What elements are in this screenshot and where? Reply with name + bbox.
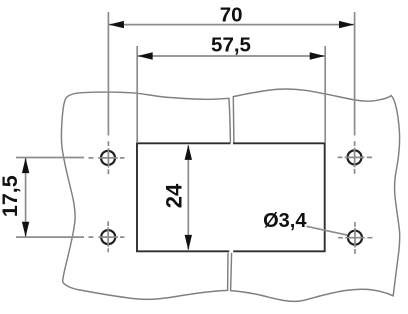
cutout rectangle	[137, 142, 325, 252]
dimension 24 line	[187, 145, 189, 250]
hole bottom-left centerlines	[89, 221, 125, 252]
leader line for hole diameter	[307, 226, 348, 235]
hole bottom-left circle	[101, 230, 115, 244]
dimension 17,5 extension bottom	[16, 236, 84, 238]
dimension 17,5 arrow top	[22, 158, 29, 173]
hole bottom-right centerlines	[338, 222, 372, 254]
svg-text:24: 24	[162, 183, 187, 208]
dimension 24 arrow bottom	[185, 235, 192, 250]
dimension 57,5 arrow right	[310, 52, 325, 59]
dimension 24 arrow top	[185, 145, 192, 160]
dimension 70 arrow right	[339, 21, 354, 28]
dimension 57,5 line	[137, 55, 325, 57]
dimension 70 extension right / hole centerline	[354, 12, 356, 136]
svg-text:57,5: 57,5	[211, 33, 251, 56]
dimension 57,5 arrow left	[138, 52, 153, 59]
dimension 57,5 extension left	[136, 46, 138, 143]
hole top-left centerlines	[89, 141, 125, 174]
hole top-left circle	[101, 151, 115, 165]
dimension 17,5 line	[25, 158, 27, 237]
dimension 70 arrow left	[109, 21, 124, 28]
dimension 70 extension left / hole centerline	[107, 12, 109, 136]
hole bottom-right circle	[348, 231, 362, 245]
svg-text:Ø3,4: Ø3,4	[263, 210, 307, 232]
dimension 17,5 extension top	[16, 157, 84, 159]
panel outline left piece	[61, 92, 230, 299]
hole top-right circle	[348, 150, 362, 164]
hole top-right centerlines	[338, 141, 372, 173]
dimension 17,5 arrow bottom	[22, 222, 29, 237]
dimension 57,5 extension right	[324, 46, 326, 143]
panel outline right piece	[231, 89, 400, 301]
svg-text:70: 70	[220, 4, 243, 27]
dimension 70 line	[108, 24, 354, 26]
svg-text:17,5: 17,5	[0, 175, 22, 217]
